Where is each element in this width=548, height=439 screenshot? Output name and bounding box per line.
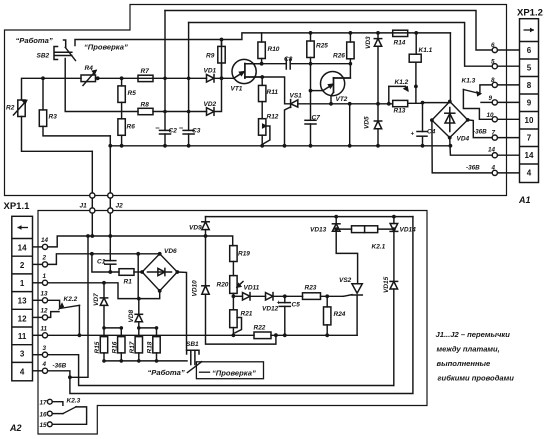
svg-text:2: 2 <box>42 255 47 262</box>
capacitor C7 <box>305 120 316 124</box>
diode VD3 <box>374 39 381 47</box>
junction dots A1 <box>41 76 45 80</box>
resistor R5 <box>118 86 125 103</box>
svg-text:SB2: SB2 <box>37 53 50 60</box>
junction dots A2 <box>86 234 90 238</box>
thyristor VS2 <box>344 284 363 297</box>
svg-text:R6: R6 <box>127 124 136 131</box>
svg-text:C2: C2 <box>169 128 178 135</box>
resistor R9 <box>218 46 225 63</box>
svg-text:VD6: VD6 <box>164 248 177 255</box>
relay coil K2.1 <box>352 226 378 233</box>
wire R13 right to bridge <box>408 102 450 105</box>
svg-text:11: 11 <box>41 326 48 333</box>
wire VD10 column <box>205 236 207 286</box>
relay contact K1.2 <box>389 86 408 90</box>
wire R3 bottom to J2 <box>43 126 110 135</box>
connector XP1.1 <box>12 216 33 380</box>
svg-text:1: 1 <box>43 273 47 280</box>
svg-text:R26: R26 <box>333 53 345 60</box>
svg-text:VD13: VD13 <box>310 227 327 234</box>
connector XP1.2 <box>520 19 539 183</box>
wire VD3 VD5 column <box>377 33 379 39</box>
svg-text:A2: A2 <box>9 423 22 433</box>
wire pin8 K1.3 <box>480 85 492 93</box>
svg-text:XP1.1: XP1.1 <box>4 201 31 212</box>
wire net pin6 top <box>165 11 492 51</box>
wire bus A1 <box>110 145 450 147</box>
resistor R14 <box>393 30 408 36</box>
svg-text:J1: J1 <box>80 203 88 210</box>
svg-text:R19: R19 <box>238 251 250 258</box>
svg-text:2: 2 <box>20 261 25 270</box>
bridge rectifier VD6 <box>142 254 177 291</box>
resistor R3 <box>39 110 46 127</box>
resistor R11 <box>259 85 266 101</box>
svg-text:VS2: VS2 <box>339 277 352 284</box>
svg-text:5: 5 <box>527 64 532 73</box>
pushbutton SB1 <box>187 350 202 372</box>
svg-text:R10: R10 <box>268 46 280 53</box>
svg-text:VT1: VT1 <box>231 86 243 93</box>
wire row1 R4 to VD1 <box>96 77 207 79</box>
svg-text:-36В: -36В <box>473 129 487 136</box>
svg-text:VD8: VD8 <box>128 309 135 322</box>
callout box Proverka <box>196 362 263 379</box>
resistor R4 <box>81 71 96 86</box>
svg-text:VD11: VD11 <box>244 285 260 292</box>
wire K1.2 left leg <box>388 86 390 103</box>
svg-text:VD15: VD15 <box>383 276 390 293</box>
wire C5 column <box>284 296 286 302</box>
svg-text:VD5: VD5 <box>364 116 371 129</box>
wire bridge left to pin4 <box>432 120 492 173</box>
diode VD9 <box>202 222 209 230</box>
wire net pin5 <box>189 23 493 67</box>
svg-text:10: 10 <box>525 116 534 125</box>
wire R2 bottom to J1 <box>22 117 93 152</box>
svg-text:R2: R2 <box>6 105 15 112</box>
connector XP1.2 wires to box <box>497 49 519 51</box>
svg-text:R22: R22 <box>254 325 266 332</box>
resistor R6 <box>118 119 125 136</box>
svg-text:15: 15 <box>40 422 48 429</box>
svg-text:R7: R7 <box>141 68 150 75</box>
wire row2 SB2 pole <box>65 59 138 112</box>
svg-text:R24: R24 <box>334 311 346 318</box>
svg-text:3: 3 <box>43 345 47 352</box>
wire minus36 riser J1 <box>70 236 88 377</box>
wire VD13 column <box>335 217 337 224</box>
wire R9 column <box>221 40 223 47</box>
transistor VT1 <box>232 59 262 83</box>
wire VD9 top rail <box>206 216 413 218</box>
relay contact K2.2 <box>60 304 80 309</box>
relay contact K1.3 <box>463 90 480 96</box>
wire R23 to VS2 gate <box>321 295 344 297</box>
capacitor C5 <box>279 303 290 307</box>
diode VD13 <box>332 224 340 232</box>
wire C1 column <box>109 236 111 261</box>
diode VD10 <box>202 286 209 295</box>
connector pads XP1.2 <box>492 47 497 52</box>
svg-text:между платами,: между платами, <box>437 345 500 354</box>
resistor R24 <box>324 307 331 325</box>
diode VD11 <box>243 293 251 300</box>
svg-text:R25: R25 <box>316 43 328 50</box>
svg-text:8: 8 <box>491 77 495 84</box>
wire pin2 upper rail <box>48 254 160 265</box>
svg-text:-36В: -36В <box>466 165 480 172</box>
svg-text:+: + <box>411 132 415 138</box>
capacitor C3 <box>180 128 195 134</box>
wire VT1 emitter row <box>245 77 291 104</box>
wire VT2 emitter riser <box>330 96 332 104</box>
svg-text:R23: R23 <box>305 285 317 292</box>
wire VD8 column <box>138 299 140 315</box>
svg-text:“Проверка”: “Проверка” <box>84 43 128 52</box>
svg-text:K2.3: K2.3 <box>67 398 81 405</box>
wire K1.3 to pin10 <box>463 90 492 120</box>
resistor R15 <box>100 337 107 353</box>
svg-text:16: 16 <box>40 412 48 419</box>
svg-text:VD3: VD3 <box>365 36 372 49</box>
svg-text:14: 14 <box>525 151 534 160</box>
wire pin3 rail <box>48 355 394 386</box>
svg-text:K1.1: K1.1 <box>419 47 433 54</box>
wire R3 column <box>42 78 44 110</box>
wire R1 to bridge <box>134 271 142 273</box>
wire VD14 column <box>393 217 395 224</box>
svg-text:13: 13 <box>41 291 49 298</box>
resistor R22 <box>254 332 271 339</box>
wire VS2 cathode leg <box>356 296 358 336</box>
capacitor C1 <box>105 261 116 265</box>
capacitor C2 <box>156 128 171 134</box>
capacitor C8 <box>286 58 290 69</box>
svg-text:VD7: VD7 <box>93 293 100 306</box>
capacitor C4 <box>417 132 427 137</box>
wire C2 column <box>164 11 166 131</box>
wire K2.3 contact <box>52 402 63 406</box>
svg-text:C4: C4 <box>427 129 436 136</box>
resistor R16 <box>118 337 125 353</box>
svg-text:4: 4 <box>42 361 47 368</box>
wire resistor bottoms rail <box>103 353 105 361</box>
wire VD11 VD12 row <box>233 295 242 297</box>
wire VD7 column <box>103 283 105 298</box>
wire K1.1 column <box>415 33 417 54</box>
svg-text:12: 12 <box>41 308 49 315</box>
svg-text:C7: C7 <box>312 115 321 122</box>
svg-text:9: 9 <box>489 95 493 102</box>
diode VD8 <box>135 314 142 322</box>
resistor R21 <box>230 310 242 333</box>
wire K2.1 coil leads <box>336 228 351 230</box>
svg-text:7: 7 <box>492 130 496 137</box>
wire R25 column <box>310 33 312 41</box>
wire bridge top riser <box>449 33 451 102</box>
resistor R7 <box>138 75 153 81</box>
svg-text:VT2: VT2 <box>336 96 348 103</box>
board A2 outline <box>38 211 427 435</box>
svg-text:XP1.2: XP1.2 <box>517 8 543 19</box>
wire bridge bottom to pin14 <box>450 138 493 156</box>
svg-text:K1.2: K1.2 <box>395 79 409 86</box>
svg-text:VD4: VD4 <box>457 136 470 143</box>
svg-text:K1.3: K1.3 <box>462 78 476 85</box>
svg-text:R14: R14 <box>394 40 406 47</box>
svg-text:K2.1: K2.1 <box>372 244 386 251</box>
wire VS1 gate <box>285 107 291 146</box>
wire pin2 lower branch <box>92 254 119 272</box>
resistor R2 <box>14 100 27 117</box>
wire R21 bottom <box>232 328 234 336</box>
resistor R23 <box>303 293 321 300</box>
svg-text:R21: R21 <box>241 311 253 318</box>
connector pads XP1.1 <box>42 244 47 249</box>
svg-text:12: 12 <box>18 314 27 323</box>
dash link <box>200 371 210 373</box>
thyristor VS1 <box>291 100 298 108</box>
diode VD2 <box>207 108 215 116</box>
wire J1 jumper <box>91 151 93 236</box>
svg-text:C1: C1 <box>97 259 106 266</box>
svg-text:выполненные: выполненные <box>437 359 492 368</box>
svg-text:R15: R15 <box>94 341 101 353</box>
svg-text:4: 4 <box>491 165 496 172</box>
svg-text:R11: R11 <box>267 89 279 96</box>
svg-text:R9: R9 <box>206 53 215 60</box>
svg-text:R12: R12 <box>267 114 279 121</box>
wire VT2 base <box>311 90 323 92</box>
wire pin9 <box>481 101 492 103</box>
resistor R18 <box>153 337 160 353</box>
svg-text:6: 6 <box>491 42 495 49</box>
contact pads K2.3 <box>47 399 52 404</box>
svg-text:17: 17 <box>40 400 48 407</box>
wire R26 collector column <box>349 33 351 42</box>
svg-text:8: 8 <box>527 81 532 90</box>
bridge rectifier VD4 <box>432 102 468 138</box>
resistor R1 <box>119 269 134 276</box>
svg-text:10: 10 <box>487 112 495 119</box>
svg-text:14: 14 <box>488 147 496 154</box>
svg-text:R17: R17 <box>129 341 136 353</box>
wire VD1 to VT1 <box>214 77 234 79</box>
resistor R19 <box>230 246 237 262</box>
wire K2.2 output leg <box>78 306 80 336</box>
svg-text:5: 5 <box>491 59 495 66</box>
svg-text:R5: R5 <box>128 90 137 97</box>
svg-text:K2.2: K2.2 <box>64 296 78 303</box>
diode VD12 <box>266 293 274 300</box>
wire C3 column <box>188 23 190 131</box>
resistor R8 <box>138 108 153 114</box>
svg-text:6: 6 <box>527 46 532 55</box>
svg-text:гибкими проводами: гибкими проводами <box>438 374 515 383</box>
svg-text:VS1: VS1 <box>290 93 303 100</box>
svg-text:7: 7 <box>527 134 532 143</box>
svg-text:C5: C5 <box>292 302 301 309</box>
wire VD2 riser <box>214 40 222 112</box>
diode VD14 <box>390 224 398 232</box>
wire row1 base <box>22 78 82 100</box>
wire pin4 rail -36V <box>48 217 413 394</box>
connector XP1.1 wires to box <box>33 246 43 248</box>
wire R15 R16 top rail <box>104 327 121 329</box>
resistor R10 <box>258 42 265 59</box>
transistor VT2 <box>321 72 351 96</box>
resistor R17 <box>135 337 142 353</box>
svg-text:R18: R18 <box>147 341 154 353</box>
wire bridge jumper column <box>137 254 139 299</box>
svg-text:“Работа”: “Работа” <box>16 36 53 45</box>
svg-text:13: 13 <box>18 297 27 306</box>
wire row riser to bus <box>349 104 351 146</box>
svg-text:A1: A1 <box>518 195 531 205</box>
svg-text:“Работа”: “Работа” <box>148 368 185 377</box>
wire pin13 K2.2 <box>48 300 60 307</box>
svg-text:-36В: -36В <box>53 363 67 370</box>
svg-text:1: 1 <box>20 279 25 288</box>
wire R24 column <box>326 296 328 307</box>
svg-text:R4: R4 <box>85 65 94 72</box>
wire bridge right leg <box>177 272 186 350</box>
wire pin12 K2.2 <box>48 312 59 318</box>
svg-text:4: 4 <box>20 368 25 377</box>
relay coil K1.1 <box>409 54 421 62</box>
pushbutton SB2 <box>54 40 76 61</box>
svg-text:R16: R16 <box>111 341 118 353</box>
wire pin11 bottom rail <box>48 334 254 336</box>
diode VD1 <box>207 75 215 83</box>
diode VD7 <box>100 298 107 306</box>
svg-text:C8: C8 <box>284 56 293 63</box>
svg-text:VD9: VD9 <box>189 225 202 232</box>
wire VS1 anode row <box>298 103 393 105</box>
svg-text:VD12: VD12 <box>262 306 279 313</box>
svg-text:3: 3 <box>20 350 25 359</box>
resistor R13 <box>393 100 408 106</box>
wire R10 column <box>261 33 263 42</box>
svg-text:R3: R3 <box>49 114 58 121</box>
resistor R12 <box>259 119 270 144</box>
wire J2 jumper <box>109 136 111 236</box>
svg-text:VD1: VD1 <box>204 68 217 75</box>
jumper pads J1 J2 <box>90 193 95 198</box>
wire VD9 column <box>205 217 207 222</box>
svg-text:R8: R8 <box>141 101 150 108</box>
resistor R20 <box>230 276 243 294</box>
svg-text:R20: R20 <box>217 282 229 289</box>
resistor R25 <box>307 41 314 58</box>
svg-text:R13: R13 <box>394 108 406 115</box>
diode VD15 <box>390 281 398 289</box>
wire pin14 rail A2 <box>48 236 233 247</box>
diode VD5 <box>374 121 381 129</box>
wire R11 R12 column <box>261 77 263 85</box>
wire C4 column <box>422 103 424 132</box>
wire R19 R20 column <box>232 262 234 276</box>
resistor R26 <box>347 42 354 59</box>
wire VD15 link <box>393 289 395 386</box>
wire SB2 to K1.1 rail <box>75 33 450 46</box>
wire C8 row <box>245 63 286 65</box>
svg-text:4: 4 <box>527 169 532 178</box>
svg-text:VD14: VD14 <box>400 227 417 234</box>
wire R17 R18 top rail <box>139 327 157 329</box>
svg-text:14: 14 <box>41 237 49 244</box>
wire pin1 rail <box>48 283 160 299</box>
wire R5 R6 column <box>121 78 123 86</box>
svg-text:“Проверка”: “Проверка” <box>212 368 256 377</box>
svg-text:J2: J2 <box>116 203 124 210</box>
svg-text:9: 9 <box>527 99 532 108</box>
svg-text:SB1: SB1 <box>186 341 199 348</box>
svg-text:C3: C3 <box>192 128 201 135</box>
wire bridge right to pin7 <box>468 120 493 138</box>
svg-text:VD2: VD2 <box>204 101 217 108</box>
board A1 outline <box>5 5 507 196</box>
svg-text:11: 11 <box>18 332 27 341</box>
svg-text:VD10: VD10 <box>192 280 199 297</box>
wire row2 R8 to VD2 <box>153 111 207 113</box>
svg-text:J1...J2 – перемычки: J1...J2 – перемычки <box>436 330 511 339</box>
svg-text:R1: R1 <box>124 279 133 286</box>
svg-text:14: 14 <box>18 244 27 253</box>
